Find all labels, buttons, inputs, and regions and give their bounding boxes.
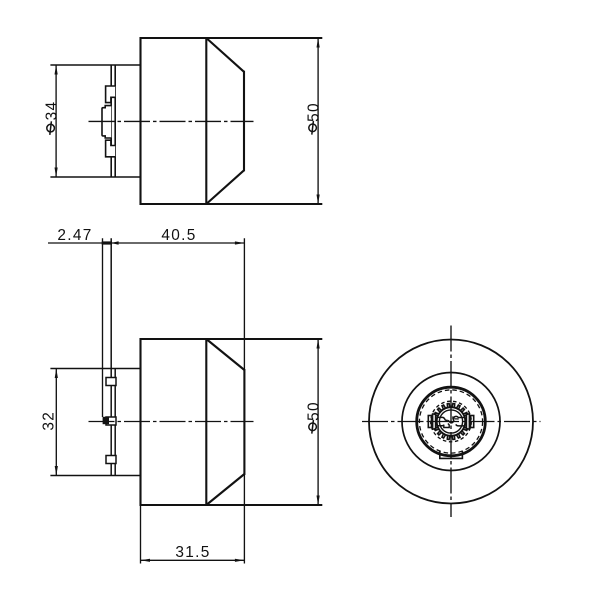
bottom view: center line: [89, 421, 254, 423]
bottom view: bushing plate right edge: [114, 369, 116, 476]
bottom view: right face edge: [243, 369, 245, 475]
dimension 32: top arrowhead: [55, 369, 58, 379]
dimension phi50 (top view): top arrowhead: [317, 38, 320, 48]
svg-text:40.5: 40.5: [161, 227, 196, 244]
top view: flange top line / phi34 extension line: [50, 64, 140, 66]
dimension phi50 (top view): dimension line: [317, 38, 319, 204]
dimension 31.5: dimension line: [141, 559, 245, 561]
dimension phi50 (top view): bottom arrowhead: [317, 195, 320, 205]
dimension 40.5: left arrowhead: [111, 241, 118, 244]
front view: vertical center line: [450, 326, 452, 518]
dimension 2.47: right arrowhead: [102, 241, 112, 244]
dimension phi50 (bottom view): dimension line: [317, 339, 319, 505]
front view: shaft spring lower right wave: [456, 424, 464, 426]
front view: shaft spring lower left horizontal: [438, 425, 444, 426]
front view: horizontal center line: [362, 421, 541, 423]
svg-text:31.5: 31.5: [175, 544, 210, 561]
dimension phi34: dimension line: [55, 65, 57, 177]
top view: body left edge: [139, 37, 141, 205]
front view: left contact bracket outer bar: [428, 416, 431, 428]
svg-text:32: 32: [40, 411, 57, 431]
svg-text:2.47: 2.47: [57, 227, 92, 244]
bottom view: body top edge with phi50 extension: [141, 338, 323, 340]
dimension phi50 (bottom view): bottom arrowhead: [317, 496, 320, 506]
bottom view: middle tab contact (filled): [103, 417, 109, 424]
dimension phi50 (bottom view): top arrowhead: [317, 339, 320, 349]
dimension 40.5: right arrowhead: [235, 241, 245, 244]
dimension phi50 (bottom view): label: [306, 401, 323, 433]
top view: upper chamfer diagonal: [206, 38, 244, 72]
top view: body bottom edge with phi50 extension: [141, 203, 323, 205]
top view: bushing plate right edge: [114, 65, 116, 177]
bottom view: body bottom edge with phi50 extension: [141, 504, 323, 506]
top view: middle spring tab: [102, 106, 111, 138]
dimension 2.47: arrow overlap blob: [103, 241, 112, 244]
front view: shaft spring right hump: [453, 416, 464, 420]
dimension 31.5: left extension line: [140, 506, 142, 564]
front view: shaft spring right notch: [453, 416, 458, 419]
top view: bushing plate left edge: [110, 65, 112, 177]
front view: right contact bracket outer bar: [471, 416, 474, 428]
top view: lower chamfer diagonal: [206, 170, 244, 204]
bottom view: upper tab: [106, 378, 116, 386]
top view: body top edge with phi50 extension: [141, 37, 323, 39]
front view: shaft spring upper wave: [438, 417, 447, 420]
top view: right face edge: [243, 71, 245, 172]
dimension phi34: bottom arrowhead: [55, 168, 58, 178]
bottom view: lower tab: [106, 456, 116, 464]
bottom view: silhouette edge at chamfer start: [205, 338, 207, 506]
top view: upper spring tab: [106, 86, 116, 103]
dimension 2.47: left arrowhead: [103, 241, 113, 244]
front view: outer circle phi50: [369, 340, 533, 504]
front view: heavy boss circle: [417, 387, 486, 456]
bottom view: middle tab outline: [106, 417, 116, 425]
dimension 2.47/40.5: dimension line: [48, 242, 244, 244]
top view: lower spring tab: [106, 140, 116, 157]
top view: center line: [89, 120, 254, 122]
front view: serration teeth ring: [435, 404, 468, 440]
front view: hidden tooth tip circle (dashed): [431, 401, 472, 442]
dimension phi34: label: [44, 101, 61, 135]
front view: shaft bore circle: [437, 407, 466, 436]
dimension phi34: top arrowhead: [55, 65, 58, 75]
dimension 31.5: right arrowhead: [235, 559, 245, 562]
svg-text:50: 50: [306, 401, 323, 421]
bottom view: flange bottom line / 32 extension line: [50, 475, 140, 477]
bottom view: 40.5 right extension line above body: [243, 238, 245, 369]
front view: left contact bracket inner bar: [433, 414, 436, 429]
bottom view: bushing plate left edge + 2.47 extension line: [110, 238, 112, 475]
front view: shaft spring left notch: [444, 424, 449, 428]
bottom view: flange top line / 32 extension line: [50, 368, 140, 370]
dimension 32: bottom arrowhead: [55, 466, 58, 476]
bottom view: 31.5 right extension line below chamfer: [243, 475, 245, 564]
bottom view: lower chamfer diagonal: [206, 474, 244, 505]
dimension phi50 (top view): label: [306, 102, 323, 134]
bottom view: body left edge: [139, 338, 141, 506]
top view: silhouette edge at chamfer start: [205, 37, 207, 205]
front view: shaft inner circle: [439, 410, 462, 433]
front view: hidden serration circle (dashed): [419, 390, 482, 453]
bottom view: upper chamfer diagonal: [206, 339, 244, 370]
front view: shaft spring middle S link: [447, 420, 454, 423]
dimension 31.5: left arrowhead: [141, 559, 151, 562]
front view: inner recess circle: [402, 373, 500, 471]
svg-text:34: 34: [44, 101, 61, 121]
front view: right contact bracket inner bar: [466, 414, 469, 429]
svg-text:50: 50: [306, 102, 323, 122]
front view: keyway tab at bottom: [440, 451, 463, 458]
bottom view: 2.47 left extension line: [102, 238, 104, 417]
top view: flange bottom line / phi34 extension line: [50, 176, 140, 178]
dimension 32: dimension line: [55, 369, 57, 476]
